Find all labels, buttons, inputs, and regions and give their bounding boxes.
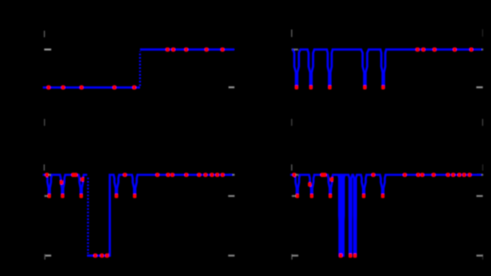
subplot 3 axis tick marks (gray) bbox=[44, 164, 234, 259]
subplot 4 signal trace (blue waveform with dips and deep spikes) bbox=[290, 175, 482, 256]
subplot 1 axis tick marks (gray) bbox=[44, 31, 235, 126]
subplot 1 signal trace (blue step waveform) bbox=[43, 50, 235, 88]
subplot 2 signal trace (blue waveform with narrow wells) bbox=[292, 50, 482, 88]
subplot 1 sample markers (red) bbox=[47, 47, 225, 89]
subplot 3 signal trace (blue waveform, dips and deep excursion) bbox=[43, 175, 233, 256]
subplot 3 deep-step transition (dotted vertical) bbox=[87, 178, 89, 254]
subplot 1 step transition (dotted vertical) bbox=[139, 51, 141, 86]
subplot 4 axis tick marks (gray) bbox=[292, 164, 484, 259]
subplot 3 sample markers (red) bbox=[45, 173, 224, 258]
subplot 2 axis tick marks (gray) bbox=[292, 29, 484, 126]
subplot 4 sample markers (red) bbox=[292, 173, 471, 258]
subplot 2 sample markers (red) bbox=[295, 47, 473, 89]
